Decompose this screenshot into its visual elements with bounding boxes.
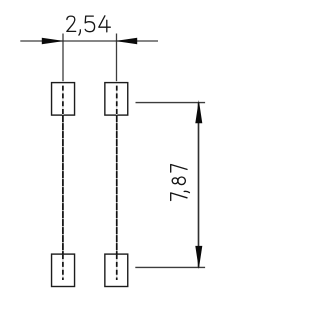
extension line left (x=62.8) — [62, 34, 64, 82]
extension line top (horizontal, from pad P2 to right dimension) — [136, 102, 206, 104]
pad P4 (bottom-right rectangle) — [105, 254, 128, 286]
dimension line 7,87 (vertical, right) — [198, 103, 200, 268]
extension line bottom (horizontal, from pad P4 to right dimension) — [135, 266, 205, 268]
dimension line 2,54 (horizontal, top) — [20, 40, 158, 42]
arrowhead right (points left, tip at right extension line) — [115, 38, 137, 44]
pad P2 (top-right rectangle) — [105, 83, 128, 116]
pad P3 (bottom-left rectangle) — [52, 254, 75, 286]
arrowhead left (points right, tip at left extension line) — [42, 38, 64, 44]
pad P1 (top-left rectangle) — [52, 83, 75, 116]
centerline right column (dash-dot) — [116, 86, 118, 280]
centerline left column (dash-dot) — [62, 86, 64, 280]
arrowhead top (points up, tip at top extension line) — [195, 100, 202, 123]
dimension text 7,87 (rotated 90 CCW) — [171, 165, 190, 201]
arrowhead bottom (points down, tip at bottom extension line) — [195, 246, 202, 269]
dimension text 2,54 — [67, 16, 111, 35]
extension line right (x=116.2) — [116, 34, 118, 82]
